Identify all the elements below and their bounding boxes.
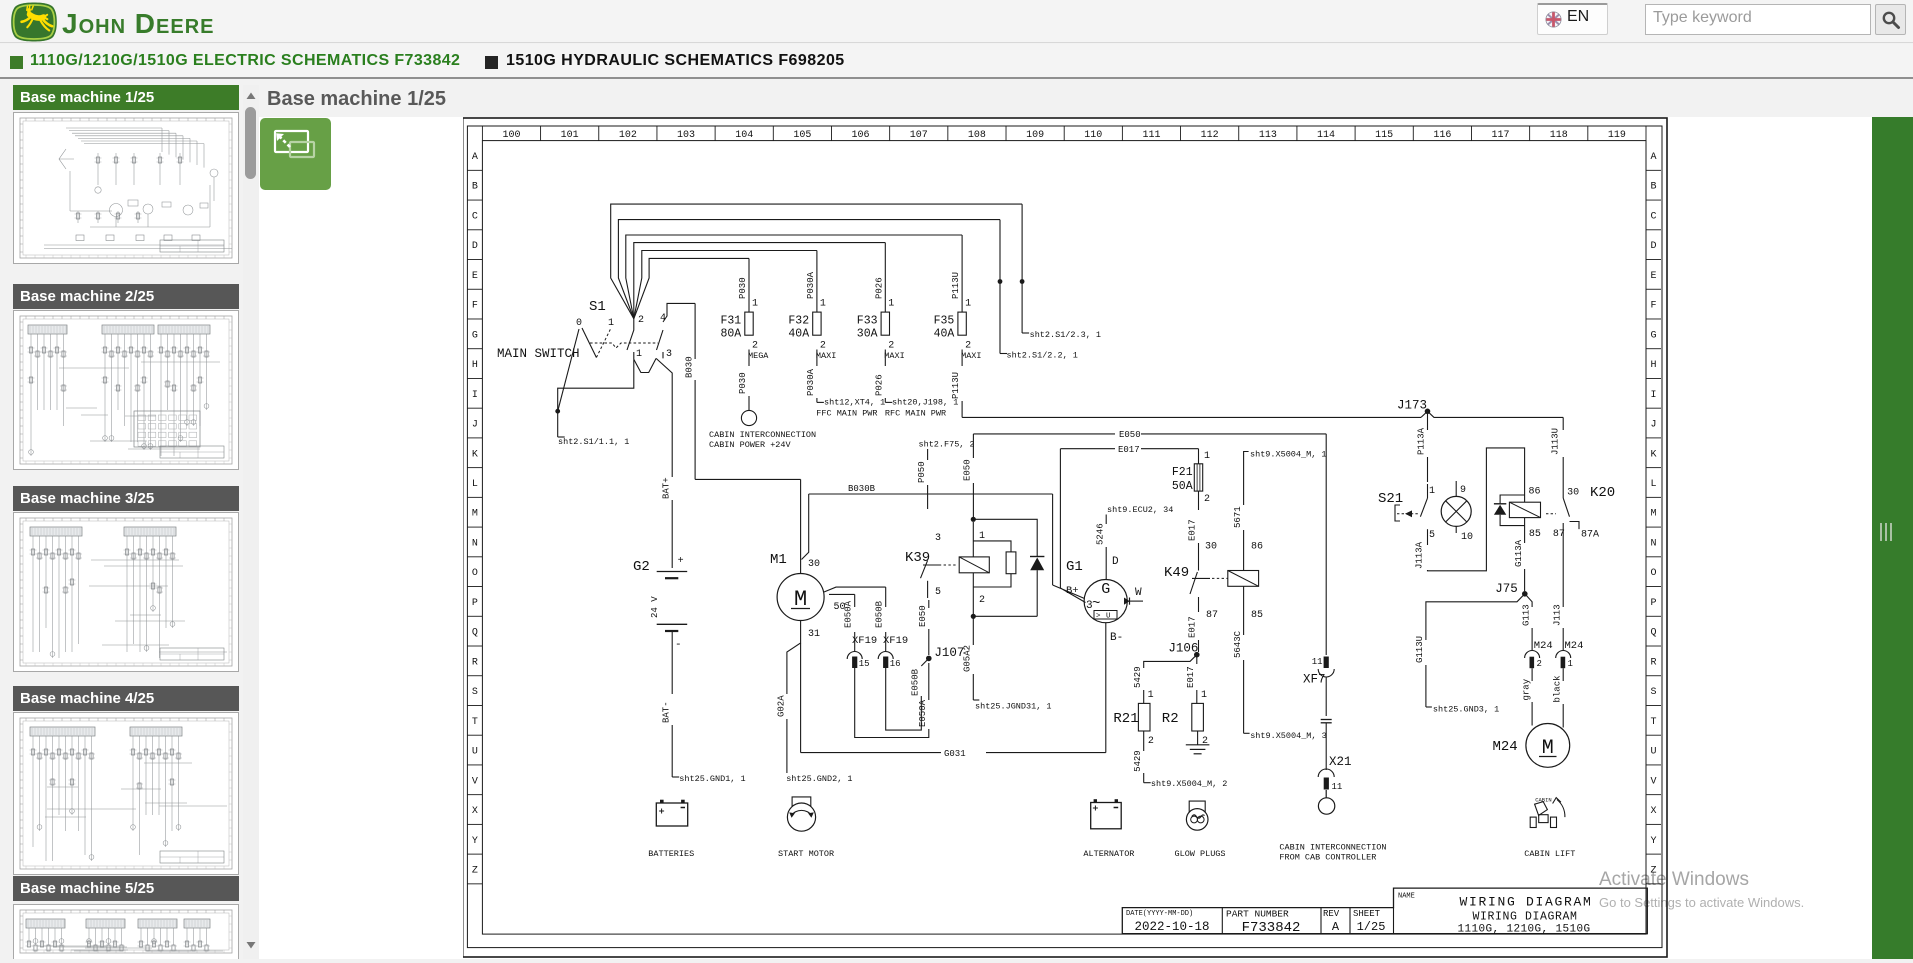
svg-text:E050B: E050B bbox=[875, 600, 885, 628]
svg-text:J: J bbox=[472, 420, 478, 431]
svg-text:X21: X21 bbox=[1329, 755, 1352, 769]
svg-text:G: G bbox=[1650, 330, 1656, 341]
svg-text:ALTERNATOR: ALTERNATOR bbox=[1083, 849, 1134, 859]
svg-text:SHEET: SHEET bbox=[1353, 909, 1381, 919]
wire B030B branch bbox=[802, 494, 809, 560]
svg-text:40A: 40A bbox=[934, 328, 955, 341]
svg-text:R2: R2 bbox=[1162, 711, 1179, 727]
wire sht2.S1/2.3 drop bbox=[1021, 204, 1023, 333]
svg-text:105: 105 bbox=[793, 130, 811, 141]
fuse link XF19 pin 16 bbox=[878, 652, 893, 660]
svg-text:H: H bbox=[1650, 360, 1656, 371]
svg-text:>: > bbox=[1096, 613, 1101, 621]
svg-text:N: N bbox=[472, 538, 478, 549]
svg-text:X: X bbox=[1650, 806, 1656, 817]
junction J107 bbox=[926, 656, 932, 662]
svg-text:FFC MAIN PWR: FFC MAIN PWR bbox=[816, 408, 877, 418]
wire P113U to J173 bbox=[961, 350, 963, 367]
svg-text:1: 1 bbox=[1148, 690, 1154, 701]
K20 coil bbox=[1509, 502, 1540, 517]
indicator lamp bbox=[1441, 496, 1471, 526]
svg-text:30: 30 bbox=[1567, 487, 1579, 498]
svg-text:1110G, 1210G, 1510G: 1110G, 1210G, 1510G bbox=[1457, 924, 1590, 936]
ground symbol under R2 bbox=[1186, 744, 1210, 746]
svg-text:sht20,J198, 1: sht20,J198, 1 bbox=[892, 398, 958, 408]
svg-text:2: 2 bbox=[1537, 659, 1542, 669]
John Deere logo bbox=[9, 1, 59, 43]
svg-text:2: 2 bbox=[1204, 494, 1210, 505]
svg-text:Y: Y bbox=[1650, 836, 1656, 847]
svg-text:K: K bbox=[472, 449, 478, 460]
svg-text:5671: 5671 bbox=[1233, 506, 1243, 528]
K39 coil bbox=[959, 557, 989, 573]
svg-text:J107: J107 bbox=[934, 646, 964, 660]
svg-text:2: 2 bbox=[888, 341, 894, 352]
S1 pole 4-3 bbox=[657, 303, 696, 358]
svg-text:M24: M24 bbox=[1493, 739, 1518, 755]
title block bbox=[1122, 888, 1647, 934]
svg-text:O: O bbox=[472, 568, 478, 579]
svg-text:1: 1 bbox=[636, 349, 642, 360]
svg-text:87: 87 bbox=[1206, 610, 1218, 621]
junction K39 coil bottom bbox=[971, 614, 976, 619]
svg-text:sht9.X5004_M, 3: sht9.X5004_M, 3 bbox=[1250, 731, 1327, 741]
svg-text:101: 101 bbox=[561, 130, 579, 141]
svg-text:1: 1 bbox=[752, 299, 758, 310]
svg-text:MAXI: MAXI bbox=[961, 351, 981, 361]
tab 2 bbox=[485, 56, 498, 69]
batteries icon bbox=[656, 803, 687, 826]
svg-text:RFC MAIN PWR: RFC MAIN PWR bbox=[885, 408, 946, 418]
wire pole1 output to sht2.S1/1.1 bbox=[558, 359, 634, 437]
wire E050 riser bbox=[972, 434, 974, 458]
glow plugs icon bbox=[1186, 809, 1208, 831]
svg-text:FROM CAB CONTROLLER: FROM CAB CONTROLLER bbox=[1279, 853, 1376, 863]
wire G113 J75 to M24 pin2 bbox=[1525, 594, 1532, 607]
svg-text:R: R bbox=[472, 657, 478, 668]
svg-text:2: 2 bbox=[820, 341, 826, 352]
K49 contact blade bbox=[1190, 572, 1197, 594]
svg-text:E: E bbox=[1650, 271, 1656, 282]
svg-text:117: 117 bbox=[1492, 130, 1510, 141]
ground rail G031 bbox=[801, 752, 941, 754]
row letter band left bbox=[467, 169, 482, 171]
svg-text:E: E bbox=[472, 271, 478, 282]
svg-text:sht9.X5004_M, 2: sht9.X5004_M, 2 bbox=[1151, 779, 1228, 789]
svg-text:A: A bbox=[472, 152, 478, 163]
sidebar scrollbar bbox=[243, 85, 259, 959]
svg-text:B-: B- bbox=[1110, 632, 1123, 644]
svg-text:30: 30 bbox=[808, 559, 820, 570]
svg-text:P030: P030 bbox=[738, 372, 748, 394]
resistor R21 bbox=[1138, 703, 1150, 731]
actuator link (dashed) bbox=[590, 343, 658, 348]
svg-text:BAT-: BAT- bbox=[662, 701, 672, 723]
svg-text:P030A: P030A bbox=[806, 271, 816, 299]
svg-text:P113A: P113A bbox=[1417, 427, 1427, 455]
svg-text:1: 1 bbox=[1204, 451, 1210, 462]
svg-text:31: 31 bbox=[808, 629, 820, 640]
svg-text:Z: Z bbox=[472, 865, 478, 876]
svg-text:85: 85 bbox=[1529, 529, 1541, 540]
svg-text:5: 5 bbox=[935, 587, 941, 598]
svg-text:M1: M1 bbox=[770, 552, 787, 568]
svg-text:U: U bbox=[1650, 747, 1656, 758]
svg-text:P: P bbox=[1650, 598, 1656, 609]
wire black to M24 motor bbox=[1562, 668, 1564, 681]
wire M1 31 to G031 rail bbox=[800, 643, 802, 753]
fuse F31 80A bbox=[748, 258, 750, 312]
G1 W pin diode mark bbox=[1127, 600, 1143, 602]
wire battery minus to sht25.GND1 bbox=[671, 631, 673, 694]
wire E050 top rail to XF7 bbox=[973, 433, 1115, 435]
svg-text:E017: E017 bbox=[1188, 519, 1198, 541]
fuse F35 40A bbox=[961, 235, 963, 312]
svg-text:109: 109 bbox=[1026, 130, 1044, 141]
svg-text:3: 3 bbox=[666, 349, 672, 360]
svg-text:87A: 87A bbox=[1581, 530, 1599, 541]
junction dot bbox=[1020, 279, 1025, 284]
cabin interconnection circle bbox=[741, 410, 756, 425]
search button bbox=[1875, 4, 1906, 35]
svg-text:B+: B+ bbox=[1066, 585, 1079, 597]
wire pole3 output to battery BAT+ bbox=[656, 358, 672, 477]
svg-text:F32: F32 bbox=[788, 315, 809, 328]
svg-text:C: C bbox=[472, 211, 478, 222]
svg-text:T: T bbox=[1650, 717, 1656, 728]
S1 pole 2-1 bbox=[627, 319, 634, 360]
svg-text:P: P bbox=[472, 598, 478, 609]
svg-text:MAXI: MAXI bbox=[816, 351, 836, 361]
wire G113U J75 to sht25.GND3 bbox=[1426, 594, 1525, 640]
svg-text:2022-10-18: 2022-10-18 bbox=[1134, 920, 1209, 934]
svg-text:E017: E017 bbox=[1188, 616, 1198, 638]
svg-text:Q: Q bbox=[1650, 628, 1656, 639]
svg-text:100: 100 bbox=[502, 130, 520, 141]
svg-text:2: 2 bbox=[638, 315, 644, 326]
svg-text:sht25.GND2, 1: sht25.GND2, 1 bbox=[786, 774, 852, 784]
svg-text:F733842: F733842 bbox=[1242, 920, 1301, 936]
svg-text:1: 1 bbox=[1429, 486, 1435, 497]
fuse F32 40A bbox=[816, 251, 818, 313]
svg-text:15: 15 bbox=[859, 659, 870, 669]
svg-text:86: 86 bbox=[1529, 487, 1541, 498]
svg-text:CABIN INTERCONNECTION: CABIN INTERCONNECTION bbox=[709, 430, 816, 440]
svg-text:REV: REV bbox=[1323, 909, 1340, 919]
svg-text:115: 115 bbox=[1375, 130, 1393, 141]
wire XF19-16 to E050B riser bbox=[886, 668, 922, 730]
svg-text:11: 11 bbox=[1332, 782, 1343, 792]
svg-text:NAME: NAME bbox=[1398, 893, 1415, 901]
svg-text:G031: G031 bbox=[944, 749, 966, 759]
svg-text:V: V bbox=[472, 776, 478, 787]
EN language button bbox=[1537, 3, 1608, 35]
fuse link XF19 pin 15 bbox=[847, 652, 862, 660]
svg-text:G1: G1 bbox=[1066, 559, 1083, 575]
middle drawing border bbox=[467, 126, 1662, 948]
grip on green bar bbox=[1878, 522, 1898, 542]
svg-text:80A: 80A bbox=[721, 328, 742, 341]
svg-text:CABIN LIFT: CABIN LIFT bbox=[1524, 849, 1575, 859]
junction K39 coil top bbox=[971, 517, 976, 522]
svg-text:2: 2 bbox=[965, 341, 971, 352]
suppression diode K39 bbox=[973, 519, 1037, 556]
svg-text:P050: P050 bbox=[917, 461, 927, 483]
svg-text:O: O bbox=[1650, 568, 1656, 579]
svg-text:P030: P030 bbox=[738, 277, 748, 299]
connector M24 pin 1 bbox=[1556, 651, 1571, 659]
svg-text:F31: F31 bbox=[721, 315, 742, 328]
svg-text:GLOW PLUGS: GLOW PLUGS bbox=[1175, 849, 1226, 859]
wire bridge pole1-pole2 bbox=[634, 358, 656, 372]
svg-text:5429: 5429 bbox=[1133, 750, 1143, 772]
svg-text:1: 1 bbox=[608, 318, 614, 329]
wire P113A J173 to S21 bbox=[1427, 411, 1429, 430]
svg-text:S: S bbox=[472, 687, 478, 698]
svg-text:S: S bbox=[1650, 687, 1656, 698]
svg-text:G113: G113 bbox=[1521, 604, 1531, 626]
svg-text:MAIN SWITCH: MAIN SWITCH bbox=[497, 347, 580, 361]
svg-text:1: 1 bbox=[888, 299, 894, 310]
svg-text:K49: K49 bbox=[1164, 565, 1189, 581]
svg-text:40A: 40A bbox=[788, 328, 809, 341]
svg-text:G113U: G113U bbox=[1415, 636, 1425, 663]
connector M24 pin 2 bbox=[1525, 651, 1540, 659]
wire E017 J106 to R2 bbox=[1196, 655, 1198, 664]
wire XF19-15 to E050A riser bbox=[855, 668, 929, 738]
svg-text:WIRING DIAGRAM: WIRING DIAGRAM bbox=[1459, 895, 1592, 910]
svg-text:PART NUMBER: PART NUMBER bbox=[1226, 909, 1289, 920]
JOHN DEERE logotype bbox=[62, 8, 214, 40]
svg-text:F: F bbox=[472, 301, 478, 312]
wire gray to M24 motor bbox=[1531, 668, 1533, 681]
wire 5429 R21 to sht9.X5004_M,2 bbox=[1143, 731, 1145, 751]
svg-text:sht2.S1/1.1, 1: sht2.S1/1.1, 1 bbox=[558, 437, 629, 447]
svg-text:B030: B030 bbox=[685, 356, 695, 378]
svg-text:+: + bbox=[678, 556, 684, 567]
svg-text:110: 110 bbox=[1084, 130, 1102, 141]
svg-text:gray: gray bbox=[1521, 678, 1531, 700]
wire G1 B- to ground rail bbox=[1105, 623, 1107, 753]
svg-text:M24: M24 bbox=[1565, 640, 1584, 652]
wire P030A to sht12,XT4 bbox=[816, 350, 818, 367]
svg-text:E050: E050 bbox=[963, 459, 973, 481]
svg-text:111: 111 bbox=[1142, 130, 1160, 141]
svg-text:BATTERIES: BATTERIES bbox=[648, 849, 694, 859]
svg-text:P113U: P113U bbox=[951, 372, 961, 399]
cabin lift chassis bbox=[1539, 815, 1548, 823]
svg-text:DATE(YYYY-MM-DD): DATE(YYYY-MM-DD) bbox=[1126, 910, 1193, 918]
svg-text:WIRING DIAGRAM: WIRING DIAGRAM bbox=[1472, 911, 1577, 924]
svg-text:107: 107 bbox=[910, 130, 928, 141]
svg-text:119: 119 bbox=[1608, 130, 1626, 141]
svg-text:5429: 5429 bbox=[1133, 666, 1143, 688]
svg-text:5: 5 bbox=[1429, 530, 1435, 541]
svg-text:S1: S1 bbox=[589, 299, 606, 315]
svg-text:W: W bbox=[1135, 587, 1142, 599]
connector pin X21-11 bbox=[1318, 769, 1334, 777]
svg-text:sht25.GND3, 1: sht25.GND3, 1 bbox=[1433, 705, 1499, 715]
svg-text:F: F bbox=[1650, 301, 1656, 312]
svg-text:D: D bbox=[1650, 241, 1656, 252]
svg-text:G113A: G113A bbox=[1514, 539, 1524, 567]
svg-text:D: D bbox=[472, 241, 478, 252]
svg-text:J113U: J113U bbox=[1551, 428, 1561, 455]
svg-text:86: 86 bbox=[1251, 542, 1263, 553]
svg-text:E050A: E050A bbox=[918, 699, 928, 727]
svg-text:MEGA: MEGA bbox=[748, 351, 769, 361]
svg-text:16: 16 bbox=[890, 659, 901, 669]
svg-text:Y: Y bbox=[472, 836, 478, 847]
wire E050 to XF7 bbox=[1325, 434, 1327, 655]
svg-text:102: 102 bbox=[619, 130, 637, 141]
svg-text:-: - bbox=[675, 639, 682, 651]
svg-text:G02A: G02A bbox=[776, 695, 786, 717]
svg-text:118: 118 bbox=[1550, 130, 1568, 141]
svg-text:J: J bbox=[1650, 420, 1656, 431]
svg-text:V: V bbox=[1650, 776, 1656, 787]
svg-text:D: D bbox=[1112, 556, 1119, 568]
svg-text:P113U: P113U bbox=[951, 272, 961, 299]
svg-text:9: 9 bbox=[1460, 485, 1466, 496]
svg-text:E017: E017 bbox=[1186, 666, 1196, 688]
svg-text:M: M bbox=[472, 509, 478, 520]
outer drawing border bbox=[463, 118, 1667, 957]
svg-text:L: L bbox=[1650, 479, 1656, 490]
svg-text:1/25: 1/25 bbox=[1357, 920, 1386, 934]
alternator icon bbox=[1091, 803, 1122, 829]
svg-text:5246: 5246 bbox=[1095, 523, 1105, 545]
svg-text:black: black bbox=[1552, 675, 1562, 702]
K39 contact blade bbox=[921, 560, 928, 578]
svg-text:U: U bbox=[1106, 613, 1111, 621]
svg-text:R: R bbox=[1650, 657, 1656, 668]
svg-text:U: U bbox=[472, 747, 478, 758]
wire 5429 J106 to R21 bbox=[1144, 655, 1197, 668]
svg-text:Q: Q bbox=[472, 628, 478, 639]
svg-text:J106: J106 bbox=[1168, 642, 1198, 656]
junction dot S1/1.1 bbox=[555, 409, 560, 414]
svg-text:~: ~ bbox=[1092, 596, 1100, 612]
svg-text:P030A: P030A bbox=[806, 368, 816, 396]
svg-text:CABIN POWER +24V: CABIN POWER +24V bbox=[709, 440, 792, 450]
svg-text:P026: P026 bbox=[874, 277, 884, 299]
svg-text:B: B bbox=[1650, 182, 1656, 193]
Activate Windows watermark bbox=[1599, 869, 1749, 891]
svg-text:G05A2: G05A2 bbox=[963, 645, 973, 672]
fuse F33 30A bbox=[884, 243, 886, 313]
K39 coil resistor bbox=[1006, 552, 1016, 574]
svg-text:X: X bbox=[472, 806, 478, 817]
svg-text:sht2.S1/2.2, 1: sht2.S1/2.2, 1 bbox=[1007, 351, 1078, 361]
wire sht2.S1/2.2 drop bbox=[999, 220, 1001, 354]
svg-text:F35: F35 bbox=[934, 315, 955, 328]
expand (green) button bbox=[260, 118, 331, 190]
wire J113 K20-87 to M24 pin1 bbox=[1562, 523, 1564, 607]
svg-text:5643C: 5643C bbox=[1233, 630, 1243, 658]
svg-text:K: K bbox=[1650, 449, 1656, 460]
svg-text:G2: G2 bbox=[633, 559, 650, 575]
svg-text:3: 3 bbox=[1086, 600, 1093, 612]
svg-text:J173: J173 bbox=[1397, 399, 1427, 413]
svg-text:104: 104 bbox=[735, 130, 753, 141]
svg-text:E050B: E050B bbox=[911, 668, 921, 696]
svg-text:3: 3 bbox=[935, 533, 941, 544]
svg-text:10: 10 bbox=[1461, 532, 1473, 543]
svg-text:R21: R21 bbox=[1113, 711, 1138, 727]
junction J106 bbox=[1194, 652, 1200, 658]
row letter band right bbox=[1646, 169, 1661, 171]
wire P026 to sht20,J198 bbox=[884, 350, 886, 367]
svg-text:XF19: XF19 bbox=[852, 635, 877, 647]
svg-text:I: I bbox=[472, 390, 478, 401]
svg-text:30: 30 bbox=[1205, 542, 1217, 553]
svg-text:1: 1 bbox=[965, 299, 971, 310]
main heading bbox=[267, 88, 446, 111]
junction dot bbox=[998, 279, 1003, 284]
wire S1 to M1 pin 30 bbox=[800, 479, 802, 573]
svg-text:2: 2 bbox=[979, 595, 985, 606]
svg-text:1: 1 bbox=[1201, 690, 1207, 701]
resistor R2 bbox=[1192, 703, 1204, 731]
svg-text:sht9.ECU2, 34: sht9.ECU2, 34 bbox=[1107, 505, 1173, 515]
K49 coil bbox=[1228, 571, 1259, 587]
wire G113A K20-85 to J75 bbox=[1524, 518, 1526, 543]
svg-text:1: 1 bbox=[820, 299, 826, 310]
connector marks X21 bbox=[1321, 719, 1332, 721]
svg-text:F21: F21 bbox=[1172, 466, 1193, 479]
wire E017 rail (G1 B+ to F21) bbox=[1060, 448, 1115, 450]
svg-text:E017: E017 bbox=[1118, 445, 1140, 455]
svg-text:E050A: E050A bbox=[844, 600, 854, 628]
svg-text:2: 2 bbox=[752, 341, 758, 352]
svg-text:XF19: XF19 bbox=[883, 635, 908, 647]
svg-text:CABIN INTERCONNECTION: CABIN INTERCONNECTION bbox=[1279, 843, 1386, 853]
svg-text:G: G bbox=[472, 330, 478, 341]
svg-text:24 V: 24 V bbox=[650, 596, 660, 618]
G1 regulator box bbox=[1094, 611, 1117, 620]
svg-text:B030B: B030B bbox=[848, 484, 876, 494]
wire 5643C to sht9.X5004_M,3 bbox=[1243, 586, 1245, 635]
svg-text:XF7: XF7 bbox=[1303, 673, 1326, 687]
svg-text:MAXI: MAXI bbox=[884, 351, 904, 361]
svg-text:M: M bbox=[1650, 509, 1656, 520]
svg-text:Z: Z bbox=[1650, 865, 1656, 876]
svg-text:A: A bbox=[1332, 920, 1340, 934]
svg-text:I: I bbox=[1650, 390, 1656, 401]
svg-text:N: N bbox=[1650, 538, 1656, 549]
svg-text:E050: E050 bbox=[1119, 430, 1141, 440]
sidebar items bbox=[13, 85, 239, 110]
svg-text:sht2.S1/2.3, 1: sht2.S1/2.3, 1 bbox=[1030, 330, 1101, 340]
cabin lift tilted cab bbox=[1535, 802, 1548, 816]
svg-text:30A: 30A bbox=[857, 328, 878, 341]
svg-text:BAT+: BAT+ bbox=[662, 477, 672, 499]
svg-text:START MOTOR: START MOTOR bbox=[778, 849, 834, 859]
svg-text:J113: J113 bbox=[1552, 604, 1562, 626]
inner drawing border bbox=[482, 141, 1646, 935]
svg-text:J75: J75 bbox=[1495, 582, 1518, 596]
svg-text:113: 113 bbox=[1259, 130, 1277, 141]
svg-text:114: 114 bbox=[1317, 130, 1335, 141]
wire M1 31 / G02A to sht25.GND2 bbox=[787, 621, 801, 695]
wire P030 to cabin power circle bbox=[748, 350, 750, 367]
svg-text:50A: 50A bbox=[1172, 480, 1193, 493]
svg-text:1: 1 bbox=[1568, 659, 1573, 669]
svg-text:T: T bbox=[472, 717, 478, 728]
wire B030B / E017 down to G1 B+ bbox=[1052, 494, 1054, 585]
svg-text:11: 11 bbox=[1312, 657, 1323, 667]
